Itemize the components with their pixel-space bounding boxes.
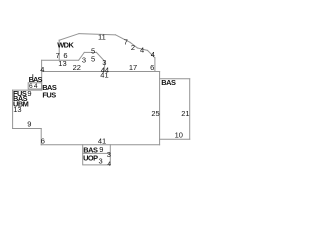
svg-text:13: 13 — [58, 59, 66, 68]
wall: deck lower floor line (13) — [42, 59, 79, 61]
wall: deck slope (4b) — [148, 50, 155, 57]
wall: step vertical (4) — [41, 60, 43, 71]
wall: right BAS wing bottom (10) — [160, 138, 190, 140]
svg-text:13: 13 — [13, 105, 21, 114]
wall: porch divider BAS/UOP — [83, 152, 111, 154]
structure: small 6x4 box — [28, 83, 41, 89]
svg-text:FUS: FUS — [42, 90, 56, 99]
svg-text:BAS: BAS — [161, 78, 176, 87]
structure: bottom porch box outline — [83, 145, 111, 165]
svg-text:4: 4 — [40, 65, 44, 74]
wall: bay bump right slant (3) — [96, 52, 104, 61]
svg-text:9: 9 — [27, 119, 31, 128]
wall: deck slope (4) — [138, 48, 148, 50]
wall: deck top-left slant — [59, 34, 79, 41]
svg-text:9: 9 — [27, 89, 31, 98]
wall: left wing top edge — [13, 89, 42, 91]
svg-text:3: 3 — [99, 156, 103, 165]
wall: bay bump left slant (3) — [79, 52, 85, 60]
wall: lower-left step vertical (6) — [40, 129, 42, 145]
wall: deck slope (2) — [130, 42, 138, 48]
artifact: small stub above BAS — [32, 74, 33, 77]
svg-text:5: 5 — [91, 54, 95, 63]
wall: deck slope (7) — [116, 35, 131, 43]
svg-text:21: 21 — [181, 109, 189, 118]
wall: right BAS wing top — [160, 78, 190, 80]
wall: right BAS wing right edge (21) — [189, 79, 191, 139]
svg-text:6: 6 — [41, 136, 45, 145]
wall: left wing left edge (13) — [12, 90, 14, 128]
svg-text:4: 4 — [34, 83, 38, 90]
wall: lower-left step horizontal (9) — [13, 128, 42, 130]
svg-text:6: 6 — [150, 63, 154, 72]
svg-text:22: 22 — [73, 63, 81, 72]
wall: bay bump top (5) — [84, 51, 96, 53]
svg-text:17: 17 — [129, 63, 137, 72]
svg-text:4: 4 — [107, 161, 111, 168]
svg-text:10: 10 — [175, 131, 183, 140]
svg-text:25: 25 — [151, 109, 159, 118]
wall: main right edge (25) — [159, 72, 161, 145]
svg-text:4: 4 — [140, 46, 144, 55]
svg-text:3: 3 — [82, 55, 86, 64]
wall: deck top edge (11) — [79, 34, 116, 35]
wall: main left wall upper — [41, 72, 43, 91]
wall: deck left vertical (7) — [58, 40, 60, 60]
svg-text:7: 7 — [124, 37, 128, 46]
svg-text:4: 4 — [151, 50, 155, 59]
wall: main building top edge (44/41) — [42, 71, 160, 73]
svg-text:3: 3 — [107, 150, 111, 159]
wall: deck right vertical (6) — [154, 58, 156, 72]
svg-text:9: 9 — [99, 145, 103, 154]
svg-text:41: 41 — [100, 71, 108, 80]
wall: bay bump right vertical — [104, 61, 106, 71]
svg-text:WDK: WDK — [57, 41, 74, 50]
wall: main bottom edge (41) — [41, 144, 159, 146]
svg-text:2: 2 — [131, 43, 135, 52]
svg-text:11: 11 — [98, 33, 106, 42]
svg-text:UOP: UOP — [83, 154, 98, 163]
